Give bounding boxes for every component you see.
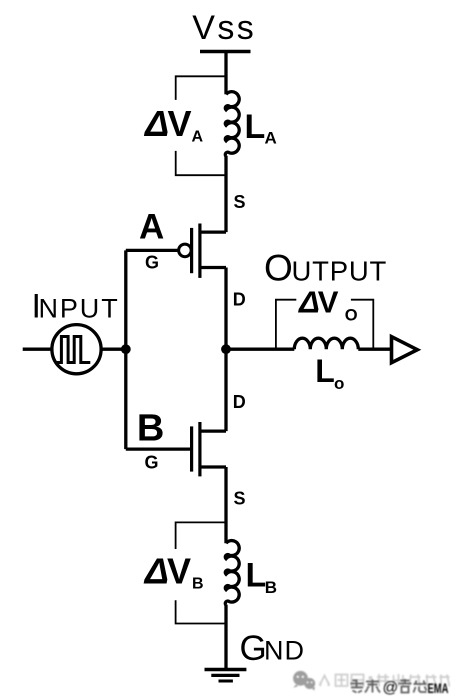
svg-text:D: D [233, 392, 246, 412]
wire LB to ground [224, 605, 227, 670]
svg-text:G: G [145, 453, 159, 473]
QB gate wire [126, 447, 190, 450]
wire QA drain to QB drain (output node column) [224, 268, 227, 432]
svg-text:G: G [145, 253, 159, 273]
svg-text:L: L [315, 353, 335, 389]
QB channel plate [198, 422, 201, 476]
Vss supply rail bar [200, 50, 251, 54]
bracket delta-VA [176, 76, 226, 175]
wire LA to QA source [224, 156, 227, 232]
svg-text:S: S [234, 489, 246, 509]
transistor QB (NMOS) [126, 422, 226, 476]
inductor LB coil [225, 541, 239, 606]
watermark light text 公众号：硬件攻城狮 [320, 674, 450, 687]
wire Vss rail to LA [224, 52, 227, 95]
svg-text:S: S [234, 192, 246, 212]
svg-text:NPUT: NPUT [39, 294, 120, 324]
svg-text:B: B [192, 575, 204, 592]
svg-text:Δ: Δ [143, 103, 169, 144]
svg-text:A: A [265, 129, 277, 148]
QB drain lead [200, 429, 226, 432]
inductor LO coil [294, 338, 358, 349]
svg-text:D: D [233, 290, 246, 310]
pulse waveform glyph [55, 337, 90, 363]
svg-text:V: V [168, 103, 192, 144]
svg-text:A: A [139, 207, 164, 246]
svg-text:B: B [265, 578, 277, 597]
svg-text:A: A [192, 129, 204, 146]
svg-text:Vss: Vss [192, 9, 256, 47]
QA channel plate [198, 224, 201, 278]
svg-text:L: L [245, 108, 266, 146]
svg-text:UTPUT: UTPUT [292, 255, 388, 286]
wire LO to output arrow [358, 348, 391, 351]
QB source lead [200, 465, 226, 468]
watermark wechat icon [293, 671, 315, 691]
wire input left stub [23, 348, 52, 351]
watermark dark text 头条@吉芯EMA [351, 679, 427, 693]
svg-text:B: B [137, 407, 164, 449]
svg-text:G: G [240, 629, 267, 668]
QB gate plate [190, 426, 193, 471]
inductor LA coil [225, 92, 239, 157]
wire source to gate bus [101, 348, 126, 351]
wire output node to LO [226, 348, 294, 351]
wire QB source to LB [224, 467, 227, 543]
junction input node [121, 344, 131, 354]
source V1 pulse generator circle [52, 325, 101, 374]
QA source lead [200, 230, 226, 233]
bracket delta-VB [176, 522, 226, 623]
svg-text:V: V [318, 285, 339, 320]
QA gate wire [126, 249, 179, 252]
svg-text:O: O [264, 247, 293, 288]
svg-text:o: o [334, 374, 344, 393]
QA drain lead [200, 266, 226, 269]
svg-text:EMA: EMA [428, 680, 449, 696]
svg-text:O: O [345, 307, 358, 325]
wire gate bus (A gate to B gate) [124, 250, 127, 449]
output arrow triangle [392, 337, 418, 363]
svg-text:L: L [246, 557, 267, 595]
svg-text:V: V [167, 551, 191, 592]
transistor QA (PMOS) [126, 224, 226, 278]
bracket delta-VO [276, 300, 373, 350]
QA gate plate [190, 228, 193, 273]
svg-text:@: @ [383, 680, 399, 697]
QA gate bubble [179, 244, 192, 257]
svg-text:Δ: Δ [298, 285, 320, 320]
svg-text:ND: ND [264, 636, 305, 666]
ground symbol [205, 670, 247, 682]
svg-text:Δ: Δ [143, 551, 169, 592]
junction output node [221, 344, 231, 354]
